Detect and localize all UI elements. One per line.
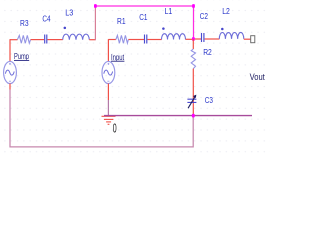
wire pump return loop: [10, 89, 193, 146]
capacitor C2: [202, 33, 204, 42]
node junction top left: [94, 4, 97, 8]
wire input bottom to ground rail: [107, 100, 109, 115]
svg-text:C4: C4: [42, 14, 51, 23]
wire pump top horizontal to R3: [10, 39, 18, 41]
svg-text:L2: L2: [222, 7, 230, 16]
resistor R1: [116, 35, 128, 43]
svg-text:C1: C1: [139, 13, 148, 22]
wire C4 to L3: [47, 39, 62, 41]
source Input VSIN: [102, 61, 115, 83]
node junction bottom: [192, 114, 195, 118]
wire C2 to L2: [205, 38, 220, 40]
svg-text:C3: C3: [205, 96, 214, 105]
wire L1 to node: [186, 38, 194, 40]
wire pump top vertical: [9, 39, 11, 61]
wire R1 to C1: [128, 39, 144, 41]
wire riser to top rail: [94, 6, 96, 40]
port terminal square: [251, 36, 255, 43]
ground 0 bars: [104, 119, 114, 124]
svg-text:L3: L3: [65, 8, 73, 17]
capacitor C3 (variable): [187, 99, 196, 102]
resistor R2: [191, 49, 195, 69]
svg-text:Input: Input: [111, 53, 125, 62]
wire L3 to riser: [89, 39, 95, 41]
wire input corner to R1: [108, 39, 116, 41]
ground 0 top bar: [102, 115, 116, 117]
wire node to C2: [193, 38, 201, 40]
capacitor C3 arrow: [188, 96, 195, 108]
phase dot L1: [162, 27, 165, 30]
node junction top right: [192, 4, 195, 8]
node junction middle right: [192, 37, 195, 41]
wire pump bottom stub: [9, 84, 11, 90]
svg-text:Pump: Pump: [14, 52, 29, 61]
wire C1 to L1: [147, 39, 161, 41]
resistor R3: [17, 35, 30, 43]
wire top rail right vertical: [193, 6, 195, 39]
inductor L2: [219, 32, 244, 38]
inductor L1: [162, 34, 186, 40]
wire node to R2: [192, 39, 194, 49]
wire input top vertical: [107, 39, 109, 61]
svg-text:Vout: Vout: [250, 72, 266, 82]
svg-text:0: 0: [113, 121, 117, 135]
phase dot L3: [64, 27, 67, 30]
source Pump VSIN: [4, 61, 17, 83]
wire input bottom stub: [107, 84, 109, 101]
svg-text:R2: R2: [203, 48, 212, 57]
wire top rail: [95, 5, 193, 7]
svg-text:R3: R3: [20, 19, 29, 28]
capacitor C1: [145, 35, 147, 44]
wire R2 to C3 to bottom rail: [192, 69, 194, 116]
svg-text:R1: R1: [117, 17, 126, 26]
inductor L3: [63, 34, 90, 40]
svg-text:L1: L1: [165, 7, 173, 16]
wire R3 to C4: [31, 39, 44, 41]
svg-text:C2: C2: [200, 12, 209, 21]
phase dot L2: [221, 28, 224, 31]
wire L2 to port: [244, 38, 251, 40]
wire bottom ground rail: [104, 115, 252, 117]
capacitor C4: [45, 35, 47, 44]
